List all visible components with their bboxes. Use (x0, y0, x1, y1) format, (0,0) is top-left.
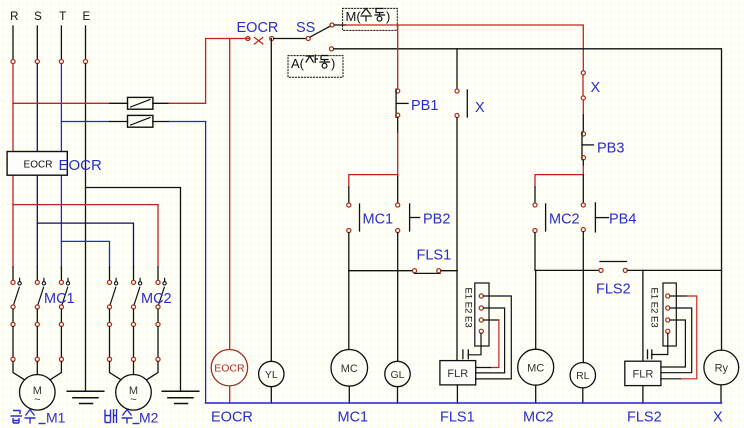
wire M1 feeder left (13, 362, 25, 380)
fuse F1 (128, 97, 153, 109)
wire M line black stub (334, 24, 346, 26)
relay coil Ry (704, 350, 739, 385)
svg-text:M1: M1 (46, 410, 66, 426)
svg-text:M(: M( (346, 9, 362, 24)
wire PB1 to MC1 junction (397, 117, 399, 133)
svg-text:T: T (59, 11, 66, 23)
wire E3 to FLR2 (661, 320, 686, 367)
coil MC (of MC1) (331, 350, 368, 387)
svg-text:RL: RL (576, 370, 590, 382)
svg-text:R: R (10, 11, 18, 23)
wire T branch to MC2 (blue) (61, 241, 109, 267)
wire fuse1 output to control rail (red) (169, 39, 206, 104)
terminal T (59, 59, 63, 63)
wire MC2 branch top (red) (535, 175, 583, 187)
wire E2 to FLR1 (476, 308, 505, 373)
svg-text:EOCR: EOCR (211, 410, 253, 426)
svg-text:MC2: MC2 (549, 212, 580, 228)
wire fuse2 tap from T (blue) (61, 121, 110, 123)
svg-text:X: X (591, 80, 601, 96)
wire M2 feeder left (110, 362, 122, 380)
svg-text:A(: A( (291, 56, 305, 71)
wire MC1 pole2 lead (36, 267, 38, 280)
contact EOCR trip (red X) (246, 36, 250, 40)
float switch FLS1 (NO) (349, 270, 413, 272)
wire X1 feed from A line (456, 49, 458, 89)
contactor MC1 pole 1 (11, 278, 21, 361)
svg-text:): ) (331, 56, 335, 71)
wire E-common probe (left) (468, 333, 481, 354)
pushbutton PB1 (396, 89, 400, 93)
svg-text:FLS1: FLS1 (440, 410, 475, 426)
svg-text:MC1: MC1 (44, 291, 75, 307)
svg-text:FLR: FLR (633, 369, 654, 381)
wire fuse2 output to neutral rail (blue) (169, 121, 206, 123)
wire MC1 branch top (red) (349, 175, 398, 187)
wire R phase (red) (12, 64, 14, 267)
wire M2 feeder mid (133, 362, 135, 375)
wire M1 feeder mid (36, 362, 38, 375)
wire E earth (black) (85, 64, 87, 392)
lamp GL (385, 361, 410, 386)
label gupsu_M1 (Korean) (11, 410, 46, 424)
svg-text:EOCR: EOCR (214, 363, 245, 375)
svg-text:Ry: Ry (715, 363, 729, 375)
wire S branch to MC2 (navy) (37, 223, 133, 267)
bus neutral (blue) (206, 402, 722, 404)
wire E-common probe (right) (652, 333, 668, 354)
box A(auto) dashed (288, 56, 343, 78)
wire PB2 down to GL (397, 233, 399, 362)
wire PB2 branch (397, 176, 399, 203)
svg-text:X: X (713, 410, 723, 426)
svg-text:EOCR: EOCR (237, 20, 279, 36)
contactor MC2 pole 1 (107, 278, 117, 361)
wire M1 feeder right (50, 362, 61, 380)
label baesu_M2 (Korean) (105, 409, 140, 424)
wire MC1 contact to FLS1 node (348, 233, 350, 271)
electrode unit E1E2E3 (right) (663, 283, 676, 346)
svg-text:YL: YL (265, 369, 278, 381)
motor M2 (116, 375, 152, 411)
svg-text:MC2: MC2 (523, 410, 554, 426)
wire FLR2 feed (642, 270, 644, 361)
wire MC2 pole1 lead (109, 267, 111, 280)
wire E1 to FLR1 (476, 296, 512, 379)
wire X2 to PB3 (582, 100, 584, 115)
motor M1 (20, 375, 56, 411)
svg-text:MC2: MC2 (141, 291, 172, 307)
svg-text:): ) (386, 9, 390, 24)
coil MC (of MC2) (518, 349, 554, 385)
wire MC coil branch (348, 271, 350, 350)
svg-text:PB1: PB1 (411, 98, 438, 114)
svg-text:FLR: FLR (447, 368, 468, 380)
svg-text:MC: MC (527, 363, 544, 375)
svg-text:PB2: PB2 (423, 212, 450, 228)
ground 2 (162, 391, 199, 403)
wire M2 feeder right (147, 362, 159, 380)
wire PB3 to MC2 junction (582, 160, 584, 166)
pushbutton PB2 (396, 203, 400, 207)
svg-text:SS: SS (296, 20, 315, 36)
contact MC1 (NO) (347, 203, 351, 207)
node SS position A (329, 47, 333, 51)
svg-text:MC1: MC1 (338, 410, 369, 426)
terminal S (35, 59, 39, 63)
pushbutton PB4 (582, 175, 584, 203)
wire FLR2 to bus (642, 386, 644, 403)
svg-text:X: X (475, 100, 485, 116)
contact X2 on PB3 column (581, 71, 585, 75)
wire A line (black) (334, 49, 722, 271)
float switch FLS2 (NO) (536, 269, 599, 271)
wire fuse2 right lead (black) (153, 121, 169, 123)
wire PB1 feed (red) (397, 25, 399, 89)
svg-text:PB3: PB3 (597, 141, 624, 157)
wire MC1 pole1 lead (12, 267, 14, 280)
contactor MC1 pole 2 (35, 278, 45, 361)
wire E2 to FLR2 (661, 308, 692, 373)
relay FLR1 box (440, 361, 476, 385)
svg-text:E1 E2 E3: E1 E2 E3 (649, 288, 660, 328)
svg-text:M2: M2 (139, 410, 159, 426)
wire Ry feed (721, 270, 723, 350)
svg-text:FLS2: FLS2 (627, 410, 662, 426)
contact X1 (relay X, NO) (455, 89, 459, 93)
wire E lead-in (85, 26, 87, 59)
lamp RL (570, 363, 595, 388)
svg-text:GL: GL (390, 369, 404, 381)
contact MC2 (NO) (533, 203, 537, 207)
terminal R (11, 59, 15, 63)
wire MC2 contact down (534, 233, 536, 271)
svg-text:~: ~ (130, 394, 136, 406)
wire MC2 pole3 lead (157, 267, 159, 280)
box M(manual) dashed (343, 8, 398, 30)
wire T lead-in (60, 26, 62, 59)
contactor MC1 pole 3 (59, 278, 69, 361)
electrode unit E1E2E3 (left) (475, 283, 489, 346)
wire E1 to FLR2 (red riser) (670, 295, 687, 297)
wire MC1 pole3 lead (60, 267, 62, 280)
wire T phase (blue) (60, 64, 62, 267)
svg-text:EOCR: EOCR (24, 160, 53, 171)
svg-text:FLS2: FLS2 (596, 282, 631, 298)
wire PB4 down to RL (582, 232, 584, 363)
node SS position M (330, 23, 334, 27)
wire M line (red) to X2 column (346, 25, 583, 71)
wire fuse2 left lead (black) (110, 121, 128, 123)
svg-text:EOCR: EOCR (59, 157, 103, 174)
wire fuse1 left lead (black) (110, 102, 128, 104)
wire fuse1 tap from R (red) (13, 102, 110, 104)
contactor MC2 pole 2 (131, 278, 141, 361)
fuse F2 (128, 115, 153, 127)
wire R branch to MC2 (red) (13, 205, 158, 267)
relay box EOCR (7, 152, 67, 176)
wire E to ground2 branch (86, 188, 181, 392)
svg-text:S: S (34, 11, 42, 23)
wire fuse1 right lead (black) (153, 102, 169, 104)
svg-text:E1 E2 E3: E1 E2 E3 (463, 288, 474, 328)
wire MC2 pole2 lead (133, 267, 135, 280)
wire control neutral rail (blue) (205, 122, 207, 404)
wire control hot rail (red) (206, 38, 250, 40)
lamp YL (270, 39, 272, 362)
wire MC2 coil branch (535, 270, 537, 349)
wire X1 down to FLR1 (456, 118, 458, 361)
svg-text:FLS1: FLS1 (417, 248, 452, 264)
ground 1 (67, 391, 104, 403)
svg-text:PB4: PB4 (609, 212, 636, 228)
svg-text:MC1: MC1 (363, 212, 394, 228)
coil EOCR (red) (229, 39, 231, 350)
wire R lead-in (12, 26, 14, 59)
wire S lead-in (36, 26, 38, 59)
pushbutton PB3 (581, 132, 585, 136)
contactor MC2 pole 3 (156, 278, 166, 361)
svg-text:E: E (82, 11, 90, 23)
svg-text:~: ~ (34, 394, 40, 406)
wire FLR1 to bus (456, 385, 458, 403)
terminal E (83, 59, 87, 63)
wire S phase (navy) (36, 64, 38, 267)
wire E3 to FLR1 (red riser) (484, 319, 499, 321)
svg-text:MC: MC (341, 363, 358, 375)
wire EOCR contact to SS (274, 38, 306, 40)
relay FLR2 box (625, 361, 661, 385)
